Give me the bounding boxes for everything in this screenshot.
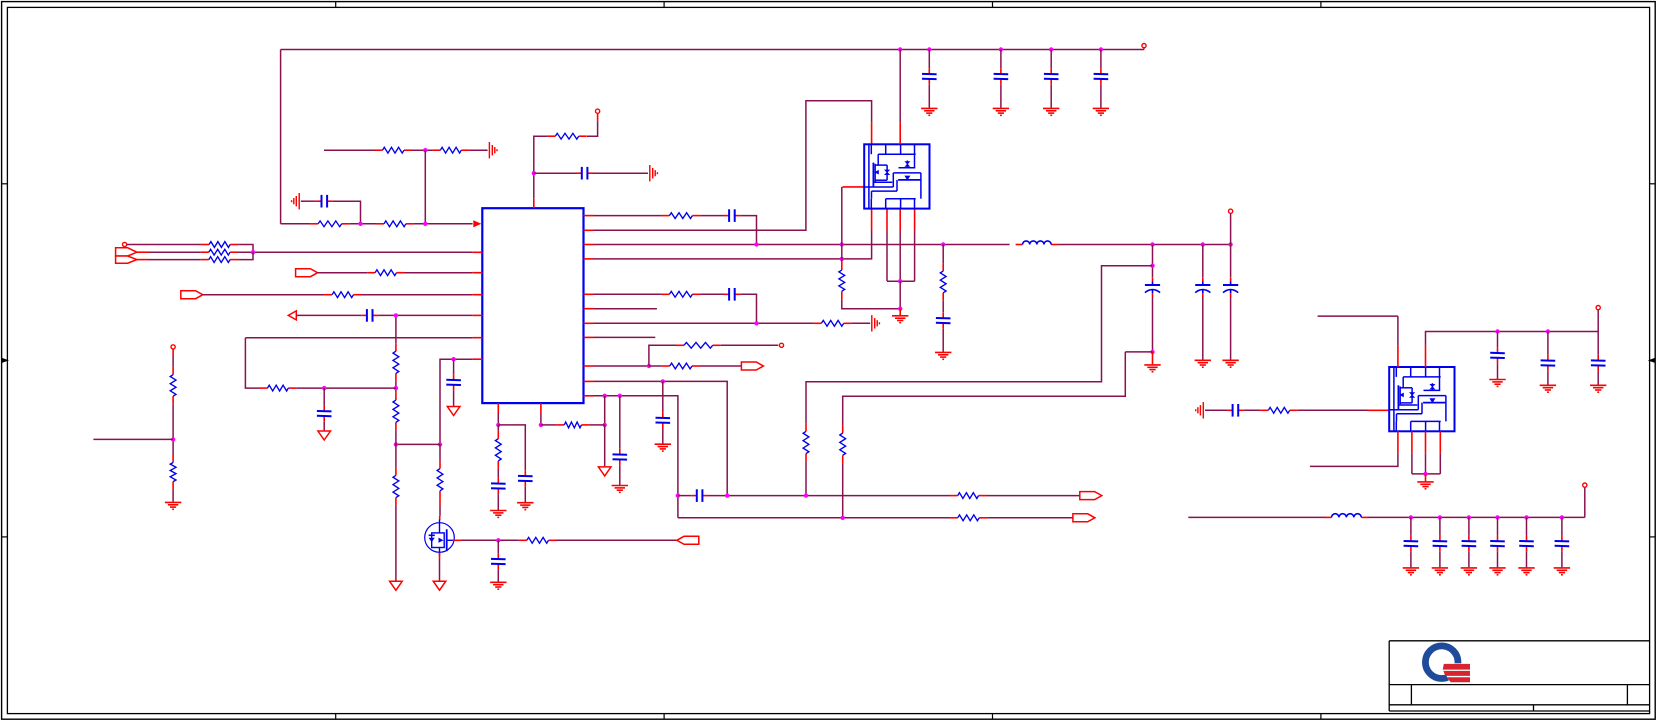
junction SW/FET1 left bbox=[840, 242, 844, 246]
resistor R18 bbox=[393, 392, 399, 430]
wire col440 a bbox=[439, 444, 441, 460]
capacitor C25 bbox=[1227, 404, 1244, 417]
wire outcap29 a bbox=[1410, 517, 1412, 535]
wire row294 corner bbox=[740, 294, 756, 323]
junction rail C26 bbox=[1495, 329, 1499, 333]
capacitor C22 bbox=[317, 405, 332, 421]
wire out row a bbox=[1188, 516, 1325, 518]
wire C28 a bbox=[1597, 332, 1599, 355]
resistor R31 bbox=[950, 515, 988, 521]
inductor L1 bbox=[1016, 241, 1059, 245]
junction row396 b bbox=[618, 394, 622, 398]
wire row244 a bbox=[127, 244, 201, 246]
wire Q2 s2 bbox=[1411, 453, 1413, 474]
wire VIN rail b bbox=[1058, 244, 1231, 246]
wire row150 a bbox=[324, 149, 375, 151]
terminal VREG bbox=[596, 109, 600, 113]
capacitor C15 bbox=[724, 288, 741, 301]
junction row518 bbox=[841, 516, 845, 520]
wire row273 a bbox=[318, 272, 368, 274]
wire caprow c bbox=[987, 495, 1080, 497]
junction VIN/C8 bbox=[1150, 242, 1154, 246]
resistor R7 bbox=[839, 262, 845, 299]
wire row425 b bbox=[589, 424, 604, 426]
junction rail FET1 drain bbox=[898, 47, 902, 51]
wire branch B a bbox=[1125, 351, 1152, 353]
wire col396 a bbox=[395, 315, 397, 343]
wire col498 c bbox=[497, 469, 499, 478]
ground out C31 bbox=[1461, 568, 1477, 575]
pin red J1 pin1 bbox=[137, 251, 149, 253]
wire row366 b bbox=[649, 365, 662, 367]
pin red FET1 bottom pin3 bbox=[899, 209, 901, 231]
wire cap C5 to row224 bbox=[333, 201, 361, 224]
terminal row345 bbox=[779, 343, 783, 347]
capacitor C14 bbox=[1044, 68, 1059, 84]
junction row252 bbox=[251, 250, 255, 254]
wire FET1 S4 down bbox=[914, 231, 916, 282]
wire col396 d bbox=[395, 444, 397, 467]
junction source gnd node bbox=[898, 307, 902, 311]
capacitor C16 bbox=[656, 412, 671, 428]
ground out C32 bbox=[1489, 568, 1505, 575]
resistor R11 bbox=[676, 342, 721, 348]
border zone ticks right bbox=[1650, 184, 1656, 537]
pin red C8 gnd stub bbox=[1152, 352, 1154, 365]
wire rail cap15 bbox=[1100, 50, 1102, 69]
wire cap14 gnd bbox=[1050, 85, 1052, 108]
resistor R10 bbox=[813, 320, 851, 326]
flag PGOOD output bbox=[741, 362, 763, 370]
ground tri C20 bbox=[447, 407, 460, 416]
wire rail cap12 bbox=[928, 50, 930, 69]
capacitor C18 bbox=[491, 478, 506, 494]
capacitor C19 bbox=[518, 470, 533, 486]
ground C21 bbox=[490, 582, 506, 589]
border zone ticks left bbox=[1, 184, 7, 537]
resistor R16 bbox=[519, 537, 557, 543]
wire row259 to FET1 S1 bbox=[594, 231, 872, 259]
transistor Q1 dual MOSFET bbox=[864, 144, 929, 208]
wire row309 stub bbox=[594, 308, 657, 310]
pin red Q2 gnd stub bbox=[1425, 474, 1427, 482]
resistor R15 bbox=[437, 461, 443, 499]
ground AGND cap C5 bbox=[292, 193, 300, 209]
ground out C33 bbox=[1518, 568, 1534, 575]
border zone ticks bottom bbox=[336, 714, 1321, 720]
wire C16 dn bbox=[662, 429, 664, 444]
resistor R13 bbox=[495, 431, 501, 469]
resistor R29 bbox=[840, 425, 846, 463]
wire M1 gate a bbox=[461, 539, 519, 541]
terminal left col bbox=[171, 345, 175, 349]
capacitor C8 polarized bbox=[1145, 278, 1160, 298]
wire rail cap14 bbox=[1050, 50, 1052, 69]
wire cap1230.6 b bbox=[1230, 297, 1232, 360]
wire row338 bbox=[245, 337, 472, 339]
wire row215 corner bbox=[740, 216, 756, 245]
junction out C31 bbox=[1467, 515, 1471, 519]
resistor R21 bbox=[324, 292, 361, 298]
wire row345 b bbox=[721, 344, 779, 346]
pin red Q2 bottom pin2 bbox=[1411, 431, 1413, 453]
ground PGND snub bbox=[935, 352, 951, 359]
junction VIN/C10 bbox=[1228, 242, 1232, 246]
pin red FET1 top pin1 bbox=[871, 122, 873, 144]
junction out C32 bbox=[1495, 515, 1499, 519]
wire row388 bbox=[296, 387, 396, 389]
wire row518 a bbox=[678, 517, 950, 519]
wire FET1 S3 down bbox=[899, 231, 901, 282]
wire row366 a bbox=[594, 365, 649, 367]
wire cap C6 row bbox=[534, 172, 578, 174]
terminal J1 aux bbox=[123, 242, 127, 246]
ground C8 bbox=[1144, 365, 1160, 372]
terminal VCC rail end bbox=[1142, 44, 1146, 48]
wire row224 b bbox=[350, 223, 376, 225]
resistor R8 bbox=[940, 263, 946, 301]
wire Q2 source bus bbox=[1412, 473, 1440, 475]
ground tri col604 bbox=[598, 467, 611, 476]
wire row315 b bbox=[378, 314, 472, 316]
wire M1 gate b bbox=[557, 539, 677, 541]
wire rail 5V bbox=[1426, 332, 1599, 346]
junction row323 bbox=[754, 321, 758, 325]
capacitor C9 polarized bbox=[1195, 278, 1210, 298]
wire row315 a bbox=[296, 314, 361, 316]
wire row294 a bbox=[594, 293, 662, 295]
wire C20 up bbox=[453, 359, 455, 374]
junction rail C14 bbox=[1049, 47, 1053, 51]
capacitor C27 bbox=[1541, 355, 1556, 371]
resistor R14 bbox=[556, 422, 589, 428]
junction comp left bbox=[394, 442, 398, 446]
wire col525 b bbox=[524, 487, 526, 503]
ground AGND gate RC bbox=[1196, 402, 1204, 418]
junction row396 a bbox=[603, 394, 607, 398]
flag input row295 bbox=[181, 291, 203, 299]
ground AGND row150 bbox=[489, 142, 497, 158]
IC U1 pins bottom bbox=[498, 403, 541, 413]
IC U1 pins left bbox=[472, 252, 482, 359]
wire cap12 gnd bbox=[928, 85, 930, 108]
border zone ticks top bbox=[336, 1, 1321, 7]
junction row359 cap bbox=[451, 357, 455, 361]
junction row150 bbox=[423, 148, 427, 152]
wire row323 b bbox=[852, 322, 871, 324]
wire VCC top rail bbox=[281, 49, 1144, 51]
wire col498 d bbox=[497, 494, 499, 510]
capacitor C24 bbox=[691, 489, 708, 502]
ground cap C15 bbox=[1093, 108, 1109, 115]
wire R5 to IC top pin bbox=[534, 136, 548, 198]
resistor R6 bbox=[661, 213, 700, 219]
junction FET1 source bbox=[898, 279, 902, 283]
junction row381 cap bbox=[661, 379, 665, 383]
wire cap1230.6 a bbox=[1230, 245, 1232, 278]
pin red M1 gate bbox=[453, 539, 461, 541]
capacitor C20 bbox=[446, 374, 461, 390]
wire rail cap13 bbox=[1000, 50, 1002, 69]
wire VIN up bbox=[1230, 213, 1232, 244]
resistor R30 bbox=[950, 493, 987, 499]
wire C20 dn bbox=[453, 391, 455, 406]
wire outcap34 b bbox=[1561, 552, 1563, 568]
resistor R28 bbox=[803, 423, 809, 461]
arrow input row315 bbox=[288, 311, 296, 320]
pin red source gnd stub bbox=[899, 309, 901, 316]
wire outcap31 b bbox=[1468, 552, 1470, 568]
connector J1 bbox=[116, 248, 137, 263]
wire gate drive loop bbox=[594, 101, 872, 231]
wire col173 a bbox=[172, 355, 174, 367]
wire col498 b bbox=[497, 425, 499, 431]
wire Q2 s3 bbox=[1425, 453, 1427, 474]
capacitor C21 bbox=[491, 553, 506, 569]
wire FET1 source to gnd bbox=[899, 281, 901, 309]
wire Q2 d1 up bbox=[1397, 316, 1399, 345]
capacitor C23 bbox=[361, 309, 378, 322]
junction vreg/cap bbox=[532, 171, 536, 175]
capacitor C10 polarized bbox=[1223, 278, 1238, 298]
wire col396 e bbox=[395, 506, 397, 581]
junction col173 bbox=[171, 437, 175, 441]
wire row295 a bbox=[203, 294, 324, 296]
wire row337 stub bbox=[594, 336, 656, 338]
junction caprow/col806 bbox=[804, 493, 808, 497]
wire C28 b bbox=[1597, 371, 1599, 385]
wire C21 a bbox=[497, 540, 499, 553]
wire out row b bbox=[1368, 516, 1585, 518]
ground cap C13 bbox=[993, 108, 1009, 115]
wire C21 b bbox=[497, 570, 499, 582]
inductor L2 bbox=[1325, 514, 1369, 518]
wire caprow a bbox=[678, 495, 691, 497]
pin red M1 drain2 bbox=[439, 516, 441, 520]
ground col173 bbox=[165, 502, 181, 509]
IC U1 pin top bbox=[533, 198, 535, 208]
wire Q2 s4 bbox=[1439, 453, 1441, 474]
junction comp right bbox=[438, 442, 442, 446]
junction col396 row388 bbox=[394, 386, 398, 390]
wire col843 b bbox=[842, 463, 844, 518]
wire comp row bbox=[396, 443, 440, 445]
wire cap13 gnd bbox=[1000, 85, 1002, 108]
resistor R20 bbox=[260, 385, 297, 391]
capacitor C32 bbox=[1490, 535, 1505, 551]
junction caprow/col727 bbox=[725, 493, 729, 497]
wire outcap31 a bbox=[1468, 517, 1470, 535]
junction VIN/C9 bbox=[1201, 242, 1205, 246]
capacitor C17 bbox=[613, 449, 628, 465]
junction out C34 bbox=[1560, 515, 1564, 519]
junction rail C27 bbox=[1546, 329, 1550, 333]
flag gate drive input bbox=[677, 536, 699, 544]
wire cap15 gnd bbox=[1100, 85, 1102, 108]
pin red FET1 left pin bbox=[843, 186, 865, 188]
capacitor C29 bbox=[1404, 535, 1419, 551]
ground PGND FET1 bbox=[892, 316, 908, 323]
wire row150 to row224 bbox=[424, 150, 426, 224]
resistor R2 bbox=[432, 147, 469, 153]
wire row224 a bbox=[281, 223, 311, 225]
ground out C29 bbox=[1403, 568, 1419, 575]
junction out C30 bbox=[1438, 515, 1442, 519]
pin red J1 pin2 bbox=[137, 259, 149, 261]
wire row359 bbox=[440, 359, 472, 444]
resistor R26 bbox=[170, 367, 176, 405]
wire FET1 left down bbox=[841, 187, 843, 262]
wire col173 b bbox=[172, 404, 174, 454]
pin red Q2 bottom pin4 bbox=[1439, 431, 1441, 453]
wire col620 b bbox=[619, 465, 621, 485]
resistor R12 bbox=[662, 363, 700, 369]
capacitor C12 bbox=[922, 68, 937, 84]
wire cap1202.8 a bbox=[1202, 245, 1204, 278]
wire FET1 source bus bbox=[887, 280, 915, 282]
wire loop left bbox=[245, 338, 259, 388]
wire caprow b bbox=[708, 495, 950, 497]
resistor R9 bbox=[661, 291, 700, 297]
wire outcap32 b bbox=[1497, 552, 1499, 568]
wire out up bbox=[1584, 487, 1586, 517]
junction col498 bbox=[496, 423, 500, 427]
capacitor C11 bbox=[936, 312, 951, 328]
wire row345 up bbox=[649, 345, 676, 366]
wire long loop A bbox=[806, 266, 1153, 424]
terminal VIN bbox=[1229, 209, 1233, 213]
wire outcap30 b bbox=[1439, 552, 1441, 568]
wire C27 b bbox=[1547, 371, 1549, 385]
junction out C29 bbox=[1409, 515, 1413, 519]
border centre arrow left bbox=[2, 358, 9, 363]
capacitor C34 bbox=[1555, 535, 1570, 551]
company logo bbox=[1425, 646, 1474, 684]
capacitor C26 bbox=[1490, 347, 1505, 363]
wire C27 a bbox=[1547, 332, 1549, 355]
wire C26 a bbox=[1497, 332, 1499, 348]
ground C10 bbox=[1222, 360, 1238, 367]
capacitor C33 bbox=[1519, 535, 1534, 551]
ground C28 bbox=[1590, 385, 1606, 392]
ground C16 bbox=[655, 444, 671, 451]
capacitor C31 bbox=[1462, 535, 1477, 551]
pin red Q2 top pin2 bbox=[1425, 345, 1427, 367]
pin arrow IC enable bbox=[473, 220, 481, 227]
junction Q2 source bbox=[1423, 472, 1427, 476]
capacitor C6 bbox=[576, 167, 593, 180]
wire row150 c bbox=[469, 149, 487, 151]
capacitor C30 bbox=[1433, 535, 1448, 551]
wire rail to FET1 drain bbox=[899, 50, 901, 123]
junction row224 bbox=[423, 222, 427, 226]
wire col806 b bbox=[805, 462, 807, 496]
resistor R22 bbox=[367, 270, 404, 276]
wire FET1 S2 down bbox=[886, 231, 888, 282]
resistor R4 bbox=[376, 221, 414, 227]
wire row252 a bbox=[149, 251, 201, 253]
wire outcap33 a bbox=[1526, 517, 1528, 535]
ground AGND C6 bbox=[650, 165, 658, 181]
wire row259 b bbox=[238, 252, 253, 259]
wire row518 b bbox=[987, 517, 1073, 519]
wire row366 c bbox=[700, 365, 741, 367]
ground tri C22 bbox=[318, 431, 331, 440]
ground tri M1 bbox=[433, 581, 446, 590]
flag VOUT sense- bbox=[1073, 514, 1095, 522]
wire VREG corner bbox=[587, 122, 598, 136]
ground tri col396 bbox=[390, 581, 403, 590]
ground out C30 bbox=[1432, 568, 1448, 575]
flag VOUT sense+ bbox=[1080, 492, 1102, 500]
transistor Q2 dual MOSFET bbox=[1389, 367, 1454, 431]
IC U1 pins right bbox=[584, 216, 594, 396]
junction rail C13 bbox=[999, 47, 1003, 51]
junction col541 bbox=[539, 423, 543, 427]
ground Q2 bbox=[1417, 482, 1433, 489]
ground out C34 bbox=[1554, 568, 1570, 575]
junction SW/R6C7 bbox=[754, 242, 758, 246]
wire C22 a bbox=[323, 388, 325, 405]
wire long loop B bbox=[843, 352, 1126, 425]
wire gateRC a bbox=[1205, 409, 1227, 411]
wire cap C5 left bbox=[301, 200, 316, 202]
resistor R25 bbox=[201, 257, 238, 263]
resistor R1 bbox=[375, 147, 413, 153]
wire row323 bbox=[594, 322, 814, 324]
resistor R19 bbox=[393, 467, 399, 505]
ground cap C12 bbox=[921, 108, 937, 115]
wire row273 b bbox=[405, 272, 473, 274]
ground C27 bbox=[1540, 385, 1556, 392]
junction row396/caprow bbox=[676, 493, 680, 497]
flag input row273 bbox=[296, 269, 318, 277]
wire col498 a bbox=[497, 413, 499, 425]
pin red Q2 bottom pin1 bbox=[1397, 431, 1399, 453]
ground AGND row323 bbox=[872, 315, 880, 331]
junction row259/FET1 bbox=[840, 257, 844, 261]
wire col173 c bbox=[172, 490, 174, 502]
junction row366 bbox=[647, 364, 651, 368]
wire col604 b bbox=[604, 425, 606, 466]
ground C18 bbox=[490, 511, 506, 518]
junction gate/C21 bbox=[496, 538, 500, 542]
terminal VOUT bbox=[1583, 483, 1587, 487]
wire C22 b bbox=[323, 422, 325, 431]
wire row215 b bbox=[700, 215, 723, 217]
resistor R17 bbox=[393, 343, 399, 381]
wire outcap33 b bbox=[1526, 552, 1528, 568]
junction out C33 bbox=[1524, 515, 1528, 519]
resistor R24 bbox=[201, 249, 238, 255]
wire col541 bbox=[540, 413, 542, 425]
wire gateRC c bbox=[1298, 409, 1368, 411]
resistor R27 bbox=[170, 455, 176, 490]
ground C19 bbox=[517, 503, 533, 510]
resistor R32 bbox=[1260, 407, 1297, 413]
wire row396 bbox=[594, 396, 678, 518]
wire outcap29 b bbox=[1410, 552, 1412, 568]
capacitor C13 bbox=[994, 68, 1009, 84]
wire snub a bbox=[942, 245, 944, 264]
ground C26 bbox=[1489, 380, 1505, 387]
wire cap C6 to gnd bbox=[593, 172, 648, 174]
junction row315 bbox=[394, 313, 398, 317]
pin red M1 drain bbox=[439, 499, 441, 505]
wire col396 b bbox=[395, 381, 397, 392]
pin red FET1 top pin2 bbox=[899, 122, 901, 144]
junction C8 branch bbox=[1150, 264, 1154, 268]
